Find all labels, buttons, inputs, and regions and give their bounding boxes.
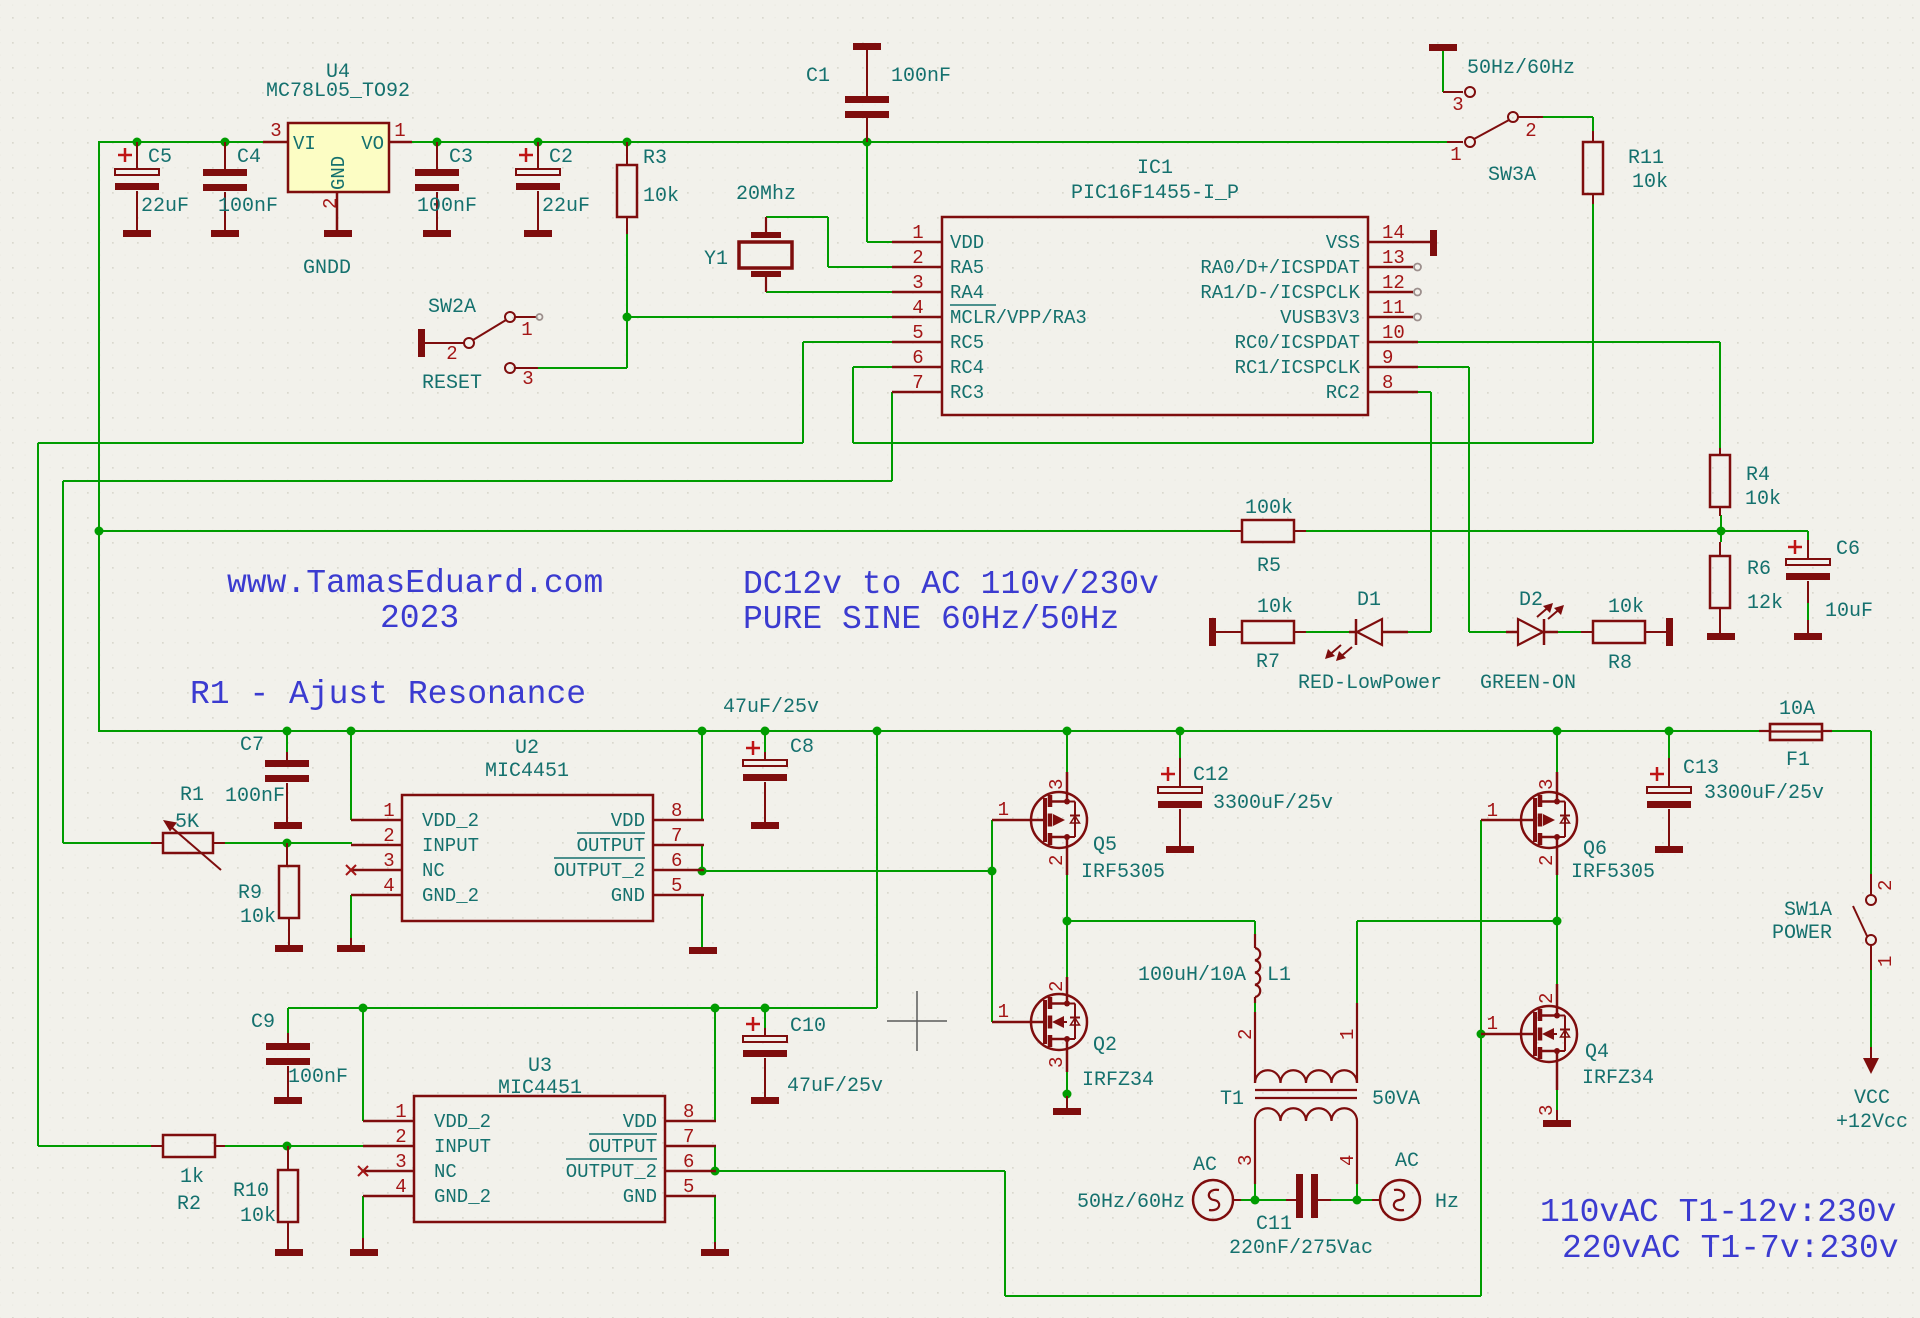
svg-text:RA1/D-/ICSPCLK: RA1/D-/ICSPCLK xyxy=(1200,282,1360,304)
svg-text:MC78L05_TO92: MC78L05_TO92 xyxy=(266,80,410,103)
svg-text:SW3A: SW3A xyxy=(1488,164,1536,187)
svg-text:50Hz/60Hz: 50Hz/60Hz xyxy=(1467,57,1575,80)
svg-text:100k: 100k xyxy=(1245,497,1293,520)
crosshair marker xyxy=(887,991,947,1051)
svg-text:C9: C9 xyxy=(251,1011,275,1034)
svg-text:2: 2 xyxy=(395,1126,406,1148)
svg-text:10k: 10k xyxy=(1632,171,1668,194)
LED D1 xyxy=(1325,619,1408,661)
capacitor C12 xyxy=(1158,758,1202,846)
wire C13 lead xyxy=(1668,731,1670,758)
capacitor C3 xyxy=(415,142,459,230)
svg-text:www.TamasEduard.com: www.TamasEduard.com xyxy=(227,565,603,602)
svg-text:1: 1 xyxy=(1487,800,1498,822)
svg-text:22uF: 22uF xyxy=(141,195,189,218)
svg-text:SW1A: SW1A xyxy=(1784,899,1832,922)
svg-text:1: 1 xyxy=(912,222,923,244)
svg-text:10k: 10k xyxy=(1608,596,1644,619)
svg-text:RA4: RA4 xyxy=(950,282,984,304)
svg-text:C10: C10 xyxy=(790,1015,826,1038)
AC source 50Hz/60Hz xyxy=(1193,1180,1241,1220)
svg-text:R7: R7 xyxy=(1256,651,1280,674)
node Q6-Q4 midpoint xyxy=(1553,917,1562,926)
wire F1 to SW1A xyxy=(1870,731,1872,874)
svg-text:8: 8 xyxy=(1382,372,1393,394)
svg-text:100nF: 100nF xyxy=(891,65,951,88)
svg-text:47uF/25v: 47uF/25v xyxy=(723,696,819,719)
wire C7 lead xyxy=(286,731,288,752)
svg-text:C8: C8 xyxy=(790,736,814,759)
svg-text:1k: 1k xyxy=(180,1166,204,1189)
ground U2 GND_2 xyxy=(337,938,365,952)
U2 left pin names xyxy=(422,810,479,907)
svg-text:14: 14 xyxy=(1382,222,1405,244)
svg-text:3: 3 xyxy=(1536,1105,1558,1116)
wire Y1 to RA4 xyxy=(766,283,892,292)
ground R7 left xyxy=(1209,618,1216,646)
svg-text:L1: L1 xyxy=(1267,964,1291,987)
svg-text:D2: D2 xyxy=(1519,589,1543,612)
ground C9 xyxy=(274,1097,302,1104)
svg-text:F1: F1 xyxy=(1786,749,1810,772)
svg-text:RC5: RC5 xyxy=(950,332,984,354)
unconnected pin 11 xyxy=(1414,314,1421,321)
svg-text:2: 2 xyxy=(1536,855,1558,866)
svg-text:RED-LowPower: RED-LowPower xyxy=(1298,672,1442,695)
svg-text:8: 8 xyxy=(671,800,682,822)
svg-text:7: 7 xyxy=(912,372,923,394)
svg-text:RESET: RESET xyxy=(422,372,482,395)
svg-text:GND_2: GND_2 xyxy=(434,1186,491,1208)
IC1 left pin numbers 1-7 xyxy=(912,222,923,394)
svg-text:C12: C12 xyxy=(1193,764,1229,787)
ground C6 xyxy=(1794,633,1822,640)
svg-text:R2: R2 xyxy=(177,1193,201,1216)
svg-text:1: 1 xyxy=(521,319,532,341)
svg-text:R1 - Ajust Resonance: R1 - Ajust Resonance xyxy=(190,676,586,713)
switch SW3A xyxy=(1443,87,1543,147)
ground 50Hz/60Hz inverted xyxy=(1429,44,1457,51)
svg-text:OUTPUT: OUTPUT xyxy=(577,835,645,857)
svg-text:PIC16F1455-I_P: PIC16F1455-I_P xyxy=(1071,182,1239,205)
wire Q4 source to ground xyxy=(1556,1090,1558,1110)
svg-text:U3: U3 xyxy=(528,1055,552,1078)
svg-text:VDD_2: VDD_2 xyxy=(434,1111,491,1133)
svg-text:2: 2 xyxy=(1235,1029,1257,1040)
svg-text:RA0/D+/ICSPDAT: RA0/D+/ICSPDAT xyxy=(1200,257,1360,279)
ground C4 xyxy=(211,230,239,237)
svg-text:10k: 10k xyxy=(240,906,276,929)
capacitor C6 xyxy=(1786,540,1830,633)
svg-text:VDD: VDD xyxy=(611,810,645,832)
node Q2 source xyxy=(1063,1090,1072,1099)
svg-text:3: 3 xyxy=(383,850,394,872)
svg-text:10k: 10k xyxy=(1257,596,1293,619)
capacitor C4 xyxy=(203,142,247,230)
wire Y1 to RA5 xyxy=(766,217,892,267)
svg-text:R11: R11 xyxy=(1628,147,1664,170)
capacitor C5 xyxy=(115,142,159,230)
transistor Q4 IRFZ34 xyxy=(1481,984,1577,1090)
svg-text:1: 1 xyxy=(1875,956,1897,967)
capacitor C11 xyxy=(1286,1174,1331,1218)
svg-text:2: 2 xyxy=(446,343,457,365)
svg-text:3: 3 xyxy=(912,272,923,294)
wire U3 GND_2 xyxy=(362,1196,364,1238)
svg-text:R5: R5 xyxy=(1257,555,1281,578)
svg-text:Q2: Q2 xyxy=(1093,1034,1117,1057)
wire U2 GND xyxy=(701,895,703,947)
ground C5 xyxy=(123,230,151,237)
node U3 feed junctions xyxy=(359,1004,770,1013)
node MCLR junction xyxy=(623,313,632,322)
svg-text:R4: R4 xyxy=(1746,464,1770,487)
driver U3 MIC4451 xyxy=(414,1096,665,1222)
svg-text:4: 4 xyxy=(383,875,394,897)
wire C1 to IC1 VDD xyxy=(867,128,892,242)
resistor R10 xyxy=(278,1146,298,1249)
svg-text:VUSB3V3: VUSB3V3 xyxy=(1280,307,1360,329)
svg-text:100uH/10A: 100uH/10A xyxy=(1138,964,1246,987)
svg-text:C7: C7 xyxy=(240,734,264,757)
resistor R6 xyxy=(1710,542,1730,633)
svg-text:2: 2 xyxy=(1875,880,1897,891)
svg-text:100nF: 100nF xyxy=(417,195,477,218)
transistor Q6 IRF5305 xyxy=(1481,772,1577,875)
svg-text:2023: 2023 xyxy=(380,600,459,637)
svg-text:7: 7 xyxy=(671,825,682,847)
wire R7 to D1 xyxy=(1306,631,1349,633)
svg-text:1: 1 xyxy=(998,1001,1009,1023)
svg-text:GND: GND xyxy=(328,156,350,190)
wire left +12V vertical xyxy=(98,141,100,732)
svg-text:1: 1 xyxy=(395,1101,406,1123)
svg-text:4: 4 xyxy=(912,297,923,319)
AC source Hz xyxy=(1372,1180,1420,1220)
svg-text:1: 1 xyxy=(1337,1029,1359,1040)
svg-text:5: 5 xyxy=(683,1176,694,1198)
svg-text:3: 3 xyxy=(1235,1155,1257,1166)
svg-text:IRFZ34: IRFZ34 xyxy=(1082,1069,1154,1092)
wire Q6-Q4 node to T1 pin1 xyxy=(1357,875,1557,1003)
svg-text:RC1/ICSPCLK: RC1/ICSPCLK xyxy=(1235,357,1361,379)
svg-text:1: 1 xyxy=(394,120,405,142)
svg-text:SW2A: SW2A xyxy=(428,296,476,319)
IC1 right pin names xyxy=(1200,232,1360,404)
svg-text:12k: 12k xyxy=(1747,592,1783,615)
ground U3 GND_2 xyxy=(350,1238,378,1256)
capacitor C13 xyxy=(1647,758,1691,846)
wire SW3A pin3 to ground xyxy=(1442,51,1444,92)
svg-text:INPUT: INPUT xyxy=(434,1136,491,1158)
node Q5-Q2 midpoint xyxy=(1063,917,1072,926)
wire +12V rail to drivers xyxy=(99,730,1871,732)
U3 left pin names xyxy=(434,1111,491,1208)
svg-text:1: 1 xyxy=(1450,144,1461,166)
svg-text:RC0/ICSPDAT: RC0/ICSPDAT xyxy=(1235,332,1360,354)
svg-text:2: 2 xyxy=(1046,981,1068,992)
resistor R5 xyxy=(1230,520,1306,542)
ground R6 xyxy=(1707,633,1735,640)
svg-text:VDD_2: VDD_2 xyxy=(422,810,479,832)
svg-text:VCC: VCC xyxy=(1854,1087,1890,1110)
svg-text:RC2: RC2 xyxy=(1326,382,1360,404)
svg-text:8: 8 xyxy=(683,1101,694,1123)
resistor R4 xyxy=(1710,448,1730,516)
svg-text:4: 4 xyxy=(1337,1155,1359,1166)
ground C2 xyxy=(524,230,552,237)
wire C8 lead xyxy=(764,731,766,752)
svg-text:C11: C11 xyxy=(1256,1213,1292,1236)
svg-text:3300uF/25v: 3300uF/25v xyxy=(1213,792,1333,815)
capacitor C8 xyxy=(743,741,787,822)
svg-text:1: 1 xyxy=(1487,1013,1498,1035)
wire U2 VDD_2 feed xyxy=(350,731,352,820)
capacitor C2 xyxy=(516,142,560,230)
unconnected pin 13 xyxy=(1414,264,1421,271)
svg-text:VDD: VDD xyxy=(623,1111,657,1133)
svg-text:5: 5 xyxy=(671,875,682,897)
svg-text:MIC4451: MIC4451 xyxy=(485,760,569,783)
svg-text:R6: R6 xyxy=(1747,558,1771,581)
svg-text:R9: R9 xyxy=(238,882,262,905)
ground Q4 xyxy=(1543,1110,1571,1127)
driver U2 MIC4451 xyxy=(402,795,653,921)
wire 12V to C9 C10 U3 rail xyxy=(288,731,877,1121)
svg-text:3: 3 xyxy=(522,368,533,390)
IC1 left pin names xyxy=(950,232,1087,404)
unconnected SW2A pin1 end xyxy=(537,314,543,320)
svg-text:IRF5305: IRF5305 xyxy=(1571,861,1655,884)
switch SW2A xyxy=(418,312,538,373)
svg-text:Y1: Y1 xyxy=(704,248,728,271)
svg-text:C4: C4 xyxy=(237,146,261,169)
node R10 junction xyxy=(283,1142,292,1151)
wire T1 pin3 to C11 node xyxy=(1254,1184,1256,1200)
wire divider R5 R4 R6 C6 xyxy=(99,515,1808,542)
node divider junction xyxy=(1717,527,1726,536)
resistor R7 xyxy=(1216,621,1306,643)
ground R10 xyxy=(275,1249,303,1256)
svg-text:6: 6 xyxy=(671,850,682,872)
svg-text:13: 13 xyxy=(1382,247,1405,269)
U3 right pin names xyxy=(566,1111,657,1208)
potentiometer R1 xyxy=(151,820,225,870)
ground R8 right xyxy=(1666,618,1673,646)
resistor R3 xyxy=(617,142,637,234)
svg-text:10k: 10k xyxy=(1745,488,1781,511)
svg-text:IRF5305: IRF5305 xyxy=(1081,861,1165,884)
U2 right pin names xyxy=(554,810,645,907)
svg-text:50VA: 50VA xyxy=(1372,1088,1420,1111)
wire Q6 drain xyxy=(1556,731,1558,772)
wire +12V top rail xyxy=(99,141,1447,143)
microcontroller IC1 PIC16F1455 xyxy=(892,217,1418,415)
svg-text:IC1: IC1 xyxy=(1137,157,1173,180)
svg-text:GND: GND xyxy=(611,885,645,907)
svg-text:47uF/25v: 47uF/25v xyxy=(787,1075,883,1098)
svg-text:RA5: RA5 xyxy=(950,257,984,279)
node R9 junction xyxy=(283,839,292,848)
svg-text:6: 6 xyxy=(683,1151,694,1173)
transistor Q2 IRFZ34 xyxy=(992,977,1087,1072)
svg-text:AC: AC xyxy=(1395,1150,1419,1173)
svg-text:C6: C6 xyxy=(1836,538,1860,561)
svg-text:1: 1 xyxy=(383,800,394,822)
svg-text:3: 3 xyxy=(270,120,281,142)
svg-text:C13: C13 xyxy=(1683,757,1719,780)
ground C1 inverted xyxy=(853,43,881,50)
fuse F1 xyxy=(1759,724,1832,740)
resistor R2 xyxy=(151,1135,225,1157)
transformer T1 xyxy=(1255,1003,1357,1184)
wire D2 to R8 xyxy=(1558,631,1581,633)
node C11 junctions xyxy=(1251,1196,1362,1205)
svg-text:3: 3 xyxy=(1046,1057,1068,1068)
wire Q2 source to ground xyxy=(1066,1072,1068,1096)
svg-text:U2: U2 xyxy=(515,737,539,760)
LED D2 xyxy=(1506,603,1564,645)
svg-text:3: 3 xyxy=(1046,779,1068,790)
ground GNDD symbol xyxy=(324,230,352,237)
svg-text:C2: C2 xyxy=(549,146,573,169)
svg-text:POWER: POWER xyxy=(1772,922,1832,945)
node Q4 gate junction xyxy=(1477,1030,1486,1039)
wire U3 GND xyxy=(714,1196,716,1242)
wire RC5 to U3 INPUT via R2 xyxy=(38,342,892,1146)
svg-text:100nF: 100nF xyxy=(225,785,285,808)
wire SW1A to VCC arrow xyxy=(1870,970,1872,1047)
svg-text:9: 9 xyxy=(1382,347,1393,369)
node U3 output junction xyxy=(711,1167,720,1176)
svg-text:GREEN-ON: GREEN-ON xyxy=(1480,672,1576,695)
node junctions power rail xyxy=(95,527,1674,736)
transistor Q5 IRF5305 xyxy=(992,772,1087,875)
wire U3 outputs to Q6 Q4 gates xyxy=(715,820,1481,1296)
node junctions top rail xyxy=(133,138,872,147)
svg-text:2: 2 xyxy=(320,198,342,209)
unconnected pin 12 xyxy=(1414,289,1421,296)
wire Q5 drain xyxy=(1066,731,1068,772)
svg-text:MCLR/VPP/RA3: MCLR/VPP/RA3 xyxy=(950,307,1087,329)
resistor R9 xyxy=(279,843,299,945)
capacitor C10 xyxy=(743,1017,787,1097)
svg-text:5K: 5K xyxy=(175,811,199,834)
wire RC2 to D1 xyxy=(1408,392,1431,632)
svg-text:3: 3 xyxy=(1536,779,1558,790)
svg-text:110vAC T1-12v:230v: 110vAC T1-12v:230v xyxy=(1540,1194,1896,1231)
svg-text:7: 7 xyxy=(683,1126,694,1148)
ground C12 xyxy=(1166,846,1194,853)
svg-text:2: 2 xyxy=(1525,120,1536,142)
ground VSS pin14 xyxy=(1418,230,1437,256)
svg-text:3300uF/25v: 3300uF/25v xyxy=(1704,782,1824,805)
svg-text:10: 10 xyxy=(1382,322,1405,344)
svg-text:10A: 10A xyxy=(1779,698,1815,721)
ground Q2 xyxy=(1053,1096,1081,1115)
svg-text:20Mhz: 20Mhz xyxy=(736,183,796,206)
capacitor C1 xyxy=(845,50,889,142)
wire SW3A pin2 to R11 xyxy=(1543,117,1593,131)
svg-text:2: 2 xyxy=(383,825,394,847)
svg-text:5: 5 xyxy=(912,322,923,344)
svg-text:Q4: Q4 xyxy=(1585,1041,1609,1064)
svg-text:2: 2 xyxy=(912,247,923,269)
ground C8 xyxy=(751,822,779,829)
regulator U4 MC78L05 xyxy=(263,123,412,231)
svg-text:MIC4451: MIC4451 xyxy=(498,1077,582,1100)
resistor R8 xyxy=(1581,621,1666,643)
ground C13 xyxy=(1655,846,1683,853)
svg-text:220vAC T1-7v:230v: 220vAC T1-7v:230v xyxy=(1562,1230,1899,1267)
svg-text:C3: C3 xyxy=(449,146,473,169)
svg-text:11: 11 xyxy=(1382,297,1405,319)
svg-text:GND_2: GND_2 xyxy=(422,885,479,907)
wire T1 pin2 from L1 xyxy=(1254,1001,1256,1013)
ground R9 xyxy=(275,945,303,952)
wire Q5-Q2 node to L1 xyxy=(1067,875,1255,977)
svg-text:GNDD: GNDD xyxy=(303,257,351,280)
svg-text:10k: 10k xyxy=(643,185,679,208)
svg-text:220nF/275Vac: 220nF/275Vac xyxy=(1229,1237,1373,1260)
ground U2 GND xyxy=(689,947,717,954)
capacitor C7 xyxy=(265,752,309,822)
svg-text:10uF: 10uF xyxy=(1825,600,1873,623)
svg-text:1: 1 xyxy=(998,799,1009,821)
svg-text:6: 6 xyxy=(912,347,923,369)
svg-text:R8: R8 xyxy=(1608,652,1632,675)
wire U2 VDD pin8 feed xyxy=(701,731,703,820)
switch SW1A POWER xyxy=(1853,874,1876,970)
ground U3 GND xyxy=(701,1242,729,1256)
svg-text:IRFZ34: IRFZ34 xyxy=(1582,1067,1654,1090)
crystal Y1 xyxy=(739,217,792,292)
svg-text:Hz: Hz xyxy=(1435,1191,1459,1214)
svg-text:NC: NC xyxy=(434,1161,457,1183)
wire U2 outputs to Q5 Q2 gates xyxy=(702,820,992,1022)
wire R3 to MCLR and SW2A xyxy=(538,233,892,368)
svg-text:AC: AC xyxy=(1193,1154,1217,1177)
wire AC source left to C11 xyxy=(1241,1199,1372,1201)
svg-text:R3: R3 xyxy=(643,147,667,170)
svg-text:OUTPUT: OUTPUT xyxy=(589,1136,657,1158)
wire U2 GND_2 xyxy=(350,895,352,938)
svg-text:100nF: 100nF xyxy=(288,1066,348,1089)
svg-text:VO: VO xyxy=(361,133,384,155)
svg-text:VSS: VSS xyxy=(1326,232,1360,254)
svg-text:Q6: Q6 xyxy=(1583,838,1607,861)
svg-text:NC: NC xyxy=(422,860,445,882)
svg-text:INPUT: INPUT xyxy=(422,835,479,857)
svg-text:T1: T1 xyxy=(1220,1088,1244,1111)
svg-text:RC3: RC3 xyxy=(950,382,984,404)
IC1 right pin numbers xyxy=(1382,222,1405,394)
svg-text:C5: C5 xyxy=(148,146,172,169)
wire C12 lead xyxy=(1179,731,1181,758)
svg-text:RC4: RC4 xyxy=(950,357,984,379)
svg-text:100nF: 100nF xyxy=(218,195,278,218)
svg-text:OUTPUT_2: OUTPUT_2 xyxy=(566,1161,657,1183)
svg-text:R10: R10 xyxy=(233,1180,269,1203)
ground C7 xyxy=(274,822,302,829)
resistor R11 xyxy=(1583,131,1603,204)
U3 pin numbers xyxy=(395,1101,694,1198)
capacitor C9 xyxy=(266,1033,310,1097)
wire RC3 to R1 and U2 INPUT xyxy=(63,392,892,843)
svg-text:4: 4 xyxy=(395,1176,406,1198)
power VCC arrow xyxy=(1863,1047,1879,1074)
svg-text:GND: GND xyxy=(623,1186,657,1208)
